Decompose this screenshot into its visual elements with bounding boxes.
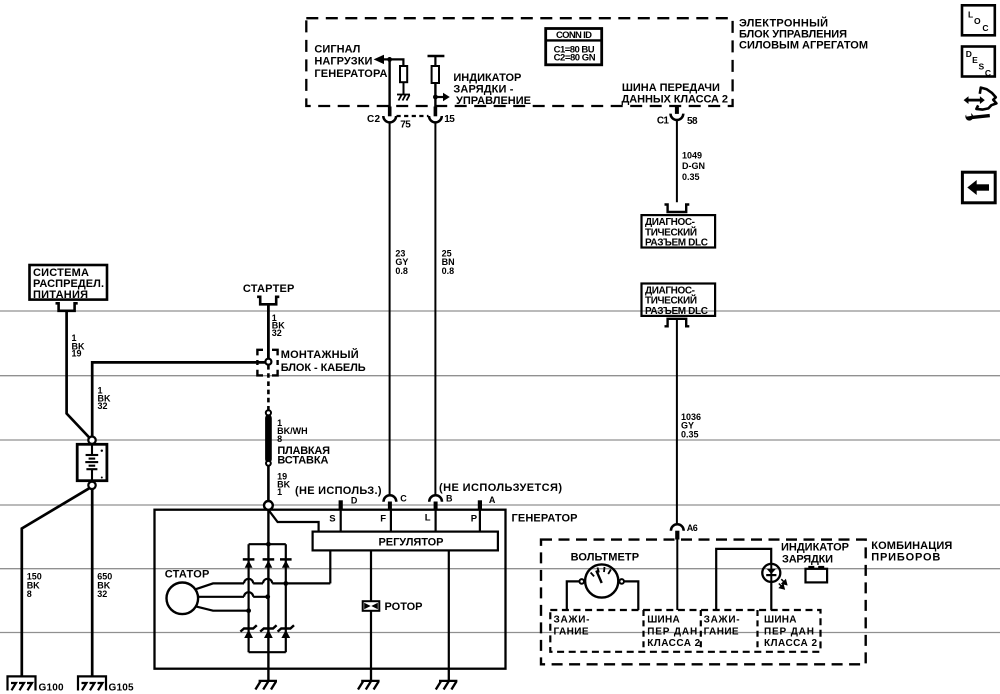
svg-text:ИНДИКАТОР: ИНДИКАТОР: [781, 542, 849, 554]
wire 150 BK 8 to G100: [22, 488, 90, 677]
label ШИНА ПЕР ДАН КЛАССА 2 (2): [764, 615, 817, 649]
DLC bracket bottom: [665, 319, 690, 327]
indicator loop wires: [716, 549, 771, 610]
label МОНТАЖНЫЙ БЛОК - КАБЕЛЬ: [281, 348, 366, 374]
ground symbol generator 3: [436, 669, 458, 690]
svg-text:F: F: [380, 514, 386, 525]
arrow indicator control: [435, 96, 443, 98]
svg-text:0.8: 0.8: [395, 266, 408, 276]
label ШИНА ПЕР ДАН КЛАССА 2 (1): [647, 615, 700, 649]
grid line 2: [0, 375, 1000, 377]
grid line 3: [0, 439, 1000, 441]
svg-text:ШИНА ПЕРЕДАЧИ: ШИНА ПЕРЕДАЧИ: [622, 82, 720, 94]
regulator to stator phase wire: [329, 550, 331, 583]
label 23 GY 0.8: [395, 249, 408, 276]
connector 15 pin: [434, 107, 438, 117]
label 150 BK 8: [27, 571, 42, 599]
svg-text:C: C: [985, 68, 991, 78]
label 1 BK 19: [72, 333, 85, 359]
resistor R1: [400, 66, 407, 82]
rotor symbol: [363, 601, 380, 611]
svg-text:ЭЛЕКТРОННЫЙ: ЭЛЕКТРОННЫЙ: [739, 16, 828, 29]
svg-text:ВСТАВКА: ВСТАВКА: [277, 454, 328, 466]
svg-text:D: D: [966, 49, 972, 59]
stator wire 2: [198, 596, 268, 598]
fusible link top node: [266, 410, 271, 415]
icon back arrow box: [962, 172, 995, 203]
svg-text:1049: 1049: [682, 151, 702, 161]
svg-text:ЗАЖИ-: ЗАЖИ-: [554, 615, 590, 626]
wire arrow to resistor R1: [383, 59, 404, 66]
svg-text:СТАРТЕР: СТАРТЕР: [243, 283, 295, 295]
svg-text:A6: A6: [687, 523, 698, 533]
diode column 3: [285, 544, 287, 652]
svg-text:ЗАЖИ-: ЗАЖИ-: [704, 615, 740, 626]
battery bottom node: [88, 482, 95, 489]
grid line 6: [0, 632, 1000, 634]
svg-text:15: 15: [444, 114, 455, 125]
wire A6 into cluster: [676, 540, 678, 611]
diode bridge top rail: [249, 543, 286, 545]
icon DESC box: [962, 47, 995, 77]
junction dot: [387, 57, 392, 62]
grid line 4: [0, 504, 1000, 506]
wire LED down: [770, 582, 772, 610]
generator box: [155, 510, 506, 669]
svg-text:D-GN: D-GN: [682, 161, 705, 171]
svg-text:CONN ID: CONN ID: [556, 30, 592, 41]
svg-text:A: A: [489, 495, 496, 505]
svg-text:32: 32: [272, 328, 282, 338]
svg-text:D: D: [351, 496, 358, 506]
connector B at generator: [429, 495, 442, 501]
fusible link bottom node: [266, 461, 271, 466]
svg-text:ПЕР ДАН: ПЕР ДАН: [647, 626, 697, 637]
label 1 BK 32 (left): [98, 385, 111, 411]
rotor wire: [370, 550, 372, 668]
label 1036 GY 0.35: [681, 412, 701, 439]
mounting block dashed corners МОНТАЖНЫЙ БЛОК: [257, 350, 277, 376]
svg-text:РАЗЪЕМ DLC: РАЗЪЕМ DLC: [645, 306, 708, 317]
node at generator top: [264, 501, 273, 510]
label 1 BK 32: [272, 313, 285, 338]
voltmeter ticks: [591, 567, 611, 577]
wire 650 BK 32 to G105: [91, 489, 94, 677]
voltmeter circle: [585, 564, 618, 597]
svg-text:КЛАССА 2: КЛАССА 2: [764, 638, 817, 649]
svg-text:C2: C2: [367, 114, 380, 125]
dashed fusible wire: [267, 365, 270, 410]
label КОМБИНАЦИЯ ПРИБОРОВ: [871, 540, 952, 564]
svg-text:19: 19: [72, 349, 82, 359]
wire R1 to ground: [403, 82, 405, 94]
wire C2 to generator C: [389, 122, 391, 496]
fusible link ПЛАВКАЯ ВСТАВКА: [265, 415, 272, 463]
svg-text:8: 8: [277, 434, 282, 444]
voltmeter needle: [596, 571, 601, 584]
svg-text:O: O: [974, 16, 981, 26]
wire C2 vertical inside PCM: [388, 59, 390, 106]
starter wire 1 BK 32: [267, 304, 270, 358]
label 1049 D-GN 0.35: [682, 151, 705, 182]
LED light arrows: [779, 579, 787, 589]
label 25 BN 0.8: [442, 249, 455, 276]
svg-text:ПРИБОРОВ: ПРИБОРОВ: [871, 552, 940, 564]
svg-text:РОТОР: РОТОР: [385, 601, 423, 613]
label ИНДИКАТОР ЗАРЯДКИ: [781, 542, 849, 566]
resistor R2: [432, 66, 439, 83]
power distribution box СИСТЕМА РАСПРЕДЕЛ. ПИТАНИЯ: [30, 265, 108, 300]
svg-text:СИГНАЛ: СИГНАЛ: [314, 43, 360, 55]
svg-text:B: B: [446, 493, 453, 503]
bracket below power dist box: [56, 303, 78, 311]
wire C1 to DLC: [676, 120, 678, 203]
svg-text:ГАНИЕ: ГАНИЕ: [704, 626, 739, 637]
svg-text:ПЕР ДАН: ПЕР ДАН: [764, 626, 814, 637]
T terminator above resistor R2: [428, 55, 445, 57]
instrument cluster dashed box КОМБИНАЦИЯ ПРИБОРОВ: [541, 540, 866, 665]
PCM dashed box: [306, 18, 732, 106]
svg-text:L: L: [968, 9, 973, 19]
svg-text:G100: G100: [39, 683, 64, 694]
battery cells: [85, 444, 98, 480]
svg-text:C2=80 GN: C2=80 GN: [554, 53, 596, 64]
wire 1 BK 19: [67, 311, 90, 438]
svg-text:ШИНА: ШИНА: [647, 615, 680, 626]
pin A: [478, 500, 482, 509]
svg-text:ДАННЫХ КЛАССА 2: ДАННЫХ КЛАССА 2: [622, 93, 729, 105]
svg-text:G105: G105: [109, 683, 134, 694]
svg-text:МОНТАЖНЫЙ: МОНТАЖНЫЙ: [281, 348, 359, 361]
ground internal PCM: [397, 95, 410, 101]
battery box: [77, 444, 107, 480]
regulator box РЕГУЛЯТОР: [313, 532, 498, 551]
pin D: [339, 500, 343, 509]
regulator pin stubs S F L P: [341, 510, 480, 532]
svg-text:1: 1: [277, 487, 282, 497]
ground symbol generator 1: [255, 681, 277, 690]
stator circle: [167, 583, 199, 615]
connector C at generator: [384, 495, 397, 501]
svg-text:S: S: [979, 62, 985, 72]
wire link to generator node: [267, 466, 270, 502]
connector C1 pin: [675, 107, 679, 114]
label ЗАЖИ-ГАНИЕ 1: [554, 615, 590, 638]
pin labels S F L P: [329, 513, 478, 525]
svg-text:РАЗЪЕМ DLC: РАЗЪЕМ DLC: [645, 237, 708, 248]
arrow generator load signal: [374, 55, 384, 64]
DLC connector box 1: [642, 215, 716, 247]
ground G100: [8, 676, 36, 690]
svg-text:L: L: [425, 513, 431, 524]
wire from junction block left: [92, 362, 265, 436]
DLC bracket top: [665, 205, 690, 213]
svg-text:ГЕНЕРАТОРА: ГЕНЕРАТОРА: [314, 68, 387, 80]
svg-text:0.35: 0.35: [682, 172, 700, 182]
battery icon: [806, 569, 828, 583]
avalanche diodes bottom: [240, 625, 294, 631]
svg-text:ВОЛЬТМЕТР: ВОЛЬТМЕТР: [571, 552, 640, 564]
voltmeter terminals: [579, 579, 584, 584]
label ПЛАВКАЯ ВСТАВКА: [277, 445, 330, 466]
svg-text:БЛОК - КАБЕЛЬ: БЛОК - КАБЕЛЬ: [281, 362, 366, 374]
svg-text:0.35: 0.35: [681, 429, 699, 439]
generator ground stub 1: [267, 652, 269, 681]
label 650 BK 32: [97, 571, 112, 599]
voltmeter right wire: [624, 581, 638, 610]
svg-text:E: E: [972, 55, 978, 65]
voltmeter left wire: [567, 581, 580, 610]
top diodes (cathode bar + arrow up): [243, 559, 292, 567]
battery top node: [88, 437, 95, 444]
wire R2 to pin 15: [434, 83, 436, 107]
svg-text:СИЛОВЫМ АГРЕГАТОМ: СИЛОВЫМ АГРЕГАТОМ: [739, 40, 868, 52]
svg-text:КОМБИНАЦИЯ: КОМБИНАЦИЯ: [871, 540, 952, 552]
label ЗАЖИ-ГАНИЕ 2: [704, 615, 740, 638]
diode bridge bottom rail: [249, 651, 286, 653]
svg-text:32: 32: [98, 401, 108, 411]
svg-text:ШИНА: ШИНА: [764, 615, 797, 626]
svg-text:8: 8: [27, 589, 32, 599]
svg-text:УПРАВЛЕНИЕ: УПРАВЛЕНИЕ: [456, 95, 531, 107]
regulator ground wire: [448, 550, 450, 668]
icon LOC box: [962, 5, 995, 35]
ground G105: [78, 676, 106, 690]
svg-text:ИНДИКАТОР: ИНДИКАТОР: [453, 72, 521, 84]
inner dashed box sections: [550, 610, 820, 652]
label ШИНА ПЕРЕДАЧИ ДАННЫХ КЛАССА 2: [622, 82, 729, 106]
svg-text:ЗАРЯДКИ -: ЗАРЯДКИ -: [453, 83, 513, 95]
connector dashed link C2-15: [397, 115, 429, 117]
svg-text:(НЕ ИСПОЛЬЗУЕТСЯ): (НЕ ИСПОЛЬЗУЕТСЯ): [439, 482, 562, 494]
svg-text:РЕГУЛЯТОР: РЕГУЛЯТОР: [379, 536, 444, 548]
junction dot: [433, 95, 438, 100]
CONN ID box: [546, 29, 602, 65]
grid line 1: [0, 310, 1000, 312]
svg-text:S: S: [329, 514, 335, 525]
svg-text:БЛОК УПРАВЛЕНИЯ: БЛОК УПРАВЛЕНИЯ: [739, 29, 847, 41]
label СИГНАЛ НАГРУЗКИ ГЕНЕРАТОРА: [314, 43, 387, 80]
svg-text:ТИЧЕСКИЙ: ТИЧЕСКИЙ: [645, 294, 697, 307]
DLC connector box 2: [642, 284, 716, 316]
diode column 1: [248, 544, 250, 652]
svg-text:32: 32: [97, 589, 107, 599]
label ИНДИКАТОР ЗАРЯДКИ - УПРАВЛЕНИЕ: [453, 72, 531, 107]
wire DLC to A6: [676, 319, 678, 525]
stator wire 3: [195, 606, 248, 610]
svg-text:ТИЧЕСКИЙ: ТИЧЕСКИЙ: [645, 225, 697, 238]
svg-text:C1: C1: [657, 115, 669, 126]
svg-text:ГЕНЕРАТОР: ГЕНЕРАТОР: [512, 513, 578, 525]
main column node to bottom rail: [267, 510, 269, 652]
svg-text:C: C: [982, 23, 988, 33]
wire 15 to generator B: [434, 122, 436, 496]
svg-text:ЗАРЯДКИ: ЗАРЯДКИ: [782, 553, 833, 565]
PCM label ЭЛЕКТРОННЫЙ БЛОК УПРАВЛЕНИЯ СИЛОВЫМ АГРЕГАТОМ: [739, 16, 868, 51]
svg-text:0.8: 0.8: [442, 266, 455, 276]
label 19 BK 1: [277, 471, 290, 497]
connector C2 pin: [388, 107, 392, 117]
svg-text:СТАТОР: СТАТОР: [165, 569, 210, 581]
connector A6: [671, 524, 684, 530]
svg-text:НАГРУЗКИ: НАГРУЗКИ: [314, 56, 372, 68]
icon data exchange arrows with wrench: [964, 88, 997, 121]
svg-text:(НЕ ИСПОЛЬЗ.): (НЕ ИСПОЛЬЗ.): [295, 485, 382, 497]
svg-text:P: P: [471, 514, 478, 525]
svg-text:ПИТАНИЯ: ПИТАНИЯ: [33, 289, 88, 301]
label 1 BK/WH 8: [277, 418, 308, 444]
stator wire 1: [195, 583, 330, 589]
svg-text:КЛАССА 2: КЛАССА 2: [647, 638, 700, 649]
node at mounting block: [265, 359, 271, 365]
grid line 5: [0, 568, 1000, 570]
node branch to regulator: [268, 510, 318, 532]
ground symbol generator 2 (rotor): [358, 669, 380, 690]
svg-text:75: 75: [400, 120, 411, 131]
svg-text:C: C: [400, 493, 407, 503]
bracket below starter: [257, 297, 279, 305]
svg-text:58: 58: [687, 116, 698, 127]
svg-text:ГАНИЕ: ГАНИЕ: [554, 626, 589, 637]
LED charge indicator: [762, 564, 780, 582]
wire T to R2: [434, 56, 436, 67]
